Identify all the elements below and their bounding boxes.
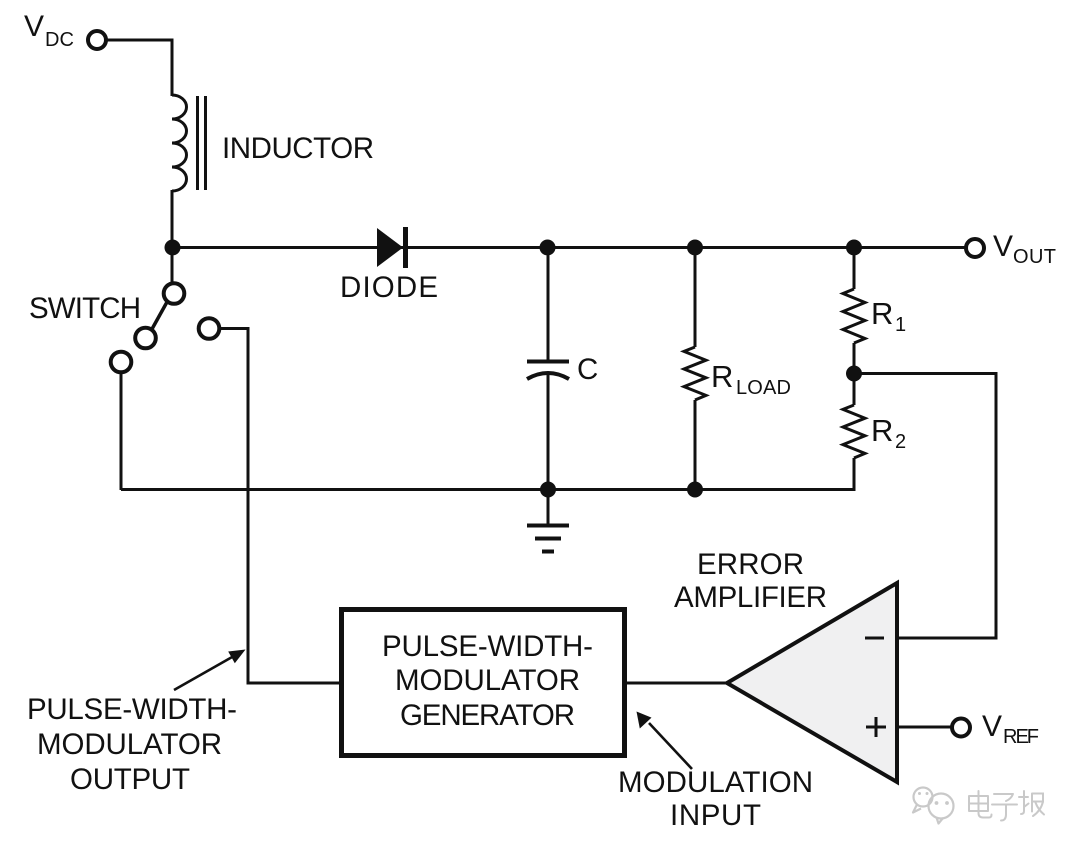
terminal VOUT <box>966 239 984 257</box>
svg-text:LOAD: LOAD <box>736 377 791 399</box>
diode D1 <box>377 227 406 268</box>
wire VDC to inductor <box>107 40 172 96</box>
svg-text:AMPLIFIER: AMPLIFIER <box>674 581 827 614</box>
node junction Rload <box>687 240 703 256</box>
label R2 <box>871 413 906 453</box>
label VOUT <box>993 230 1056 268</box>
svg-text:ERROR: ERROR <box>697 548 804 581</box>
svg-text:V: V <box>982 710 1002 743</box>
watermark text dian <box>969 791 992 818</box>
arrow PWM output pointer <box>174 650 246 691</box>
svg-text:V: V <box>24 10 44 43</box>
wire PWM box to op-amp output <box>627 682 729 685</box>
svg-text:R: R <box>871 413 893 448</box>
svg-text:DC: DC <box>45 29 74 51</box>
resistor R2 <box>843 374 865 491</box>
svg-text:PULSE-WIDTH-: PULSE-WIDTH- <box>382 630 593 663</box>
svg-text:DIODE: DIODE <box>340 271 438 304</box>
watermark text zi <box>992 794 1017 821</box>
op-amp U2 error amplifier <box>727 583 897 782</box>
label R1 <box>871 296 906 336</box>
svg-text:MODULATION: MODULATION <box>618 766 813 799</box>
node junction inductor/diode/switch <box>165 240 181 256</box>
wire bottom rail <box>121 488 856 491</box>
svg-text:GENERATOR: GENERATOR <box>400 699 575 732</box>
svg-text:R: R <box>871 296 893 331</box>
node junction feedback <box>846 366 862 382</box>
capacitor C1 <box>527 247 569 490</box>
svg-text:MODULATOR: MODULATOR <box>395 664 580 697</box>
ground <box>527 489 569 552</box>
wire top rail <box>172 246 965 249</box>
watermark icon <box>913 788 954 824</box>
plus input symbol <box>866 717 886 737</box>
node junction ground <box>540 482 556 498</box>
node junction capacitor <box>540 240 556 256</box>
svg-text:PULSE-WIDTH-: PULSE-WIDTH- <box>27 693 237 726</box>
node junction R1 <box>846 240 862 256</box>
wire feedback node to inverting input <box>854 374 996 639</box>
resistor RLOAD <box>684 247 706 490</box>
svg-text:2: 2 <box>895 431 906 453</box>
arrow modulation input pointer <box>637 712 693 770</box>
svg-text:REF: REF <box>1003 726 1039 748</box>
svg-text:1: 1 <box>895 314 906 336</box>
svg-text:SWITCH: SWITCH <box>29 292 141 325</box>
svg-text:INDUCTOR: INDUCTOR <box>222 132 374 165</box>
wire switch pole to bottom rail <box>120 372 123 490</box>
wire noninverting input to VREF <box>897 726 951 729</box>
minus input symbol <box>865 637 884 640</box>
svg-text:R: R <box>711 359 733 394</box>
wire inductor to node <box>171 190 174 248</box>
label VDC <box>24 10 74 51</box>
node junction Rload bottom <box>687 482 703 498</box>
watermark text bao <box>1019 791 1044 816</box>
wire switch control from PWM <box>219 329 340 684</box>
inductor L1 <box>172 95 206 191</box>
label VREF <box>982 710 1039 748</box>
terminal VDC <box>88 31 106 49</box>
svg-text:OUT: OUT <box>1013 246 1056 268</box>
svg-text:OUTPUT: OUTPUT <box>70 763 190 796</box>
switch S1 <box>111 247 220 372</box>
svg-text:C: C <box>577 353 598 386</box>
terminal VREF <box>952 719 970 737</box>
svg-text:MODULATOR: MODULATOR <box>37 728 222 761</box>
svg-text:V: V <box>993 230 1013 263</box>
label RLOAD <box>711 359 791 399</box>
resistor R1 <box>843 247 865 374</box>
PWM generator box U1 <box>342 610 625 756</box>
svg-text:INPUT: INPUT <box>670 799 761 832</box>
